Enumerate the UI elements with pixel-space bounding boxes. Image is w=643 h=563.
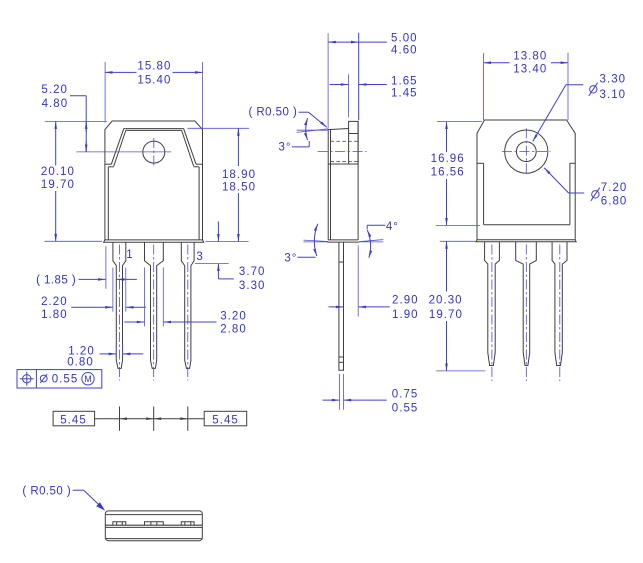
angle 4 deg: [359, 221, 399, 258]
side top block: [349, 121, 359, 164]
svg-text:18.90: 18.90: [222, 169, 256, 181]
dimension 5.45 chain: [53, 407, 247, 431]
side lead taper tick: [339, 261, 344, 263]
front inner left slant inner: [114, 130, 126, 166]
back pad left edge: [483, 163, 485, 224]
bottom view pin 1 stub: [113, 522, 126, 525]
svg-text:( R0.50 ): ( R0.50 ): [249, 107, 298, 119]
svg-text:7.20: 7.20: [601, 182, 628, 194]
dimension 1.65/1.45: [330, 74, 418, 117]
svg-text:3.30: 3.30: [239, 280, 266, 292]
back lead 1 centerline: [491, 245, 493, 382]
bottom view lower inner line: [106, 538, 202, 540]
svg-text:3.30: 3.30: [600, 74, 627, 86]
angle 3 deg bottom: [284, 224, 328, 265]
side hidden hole top: [331, 140, 359, 142]
svg-text:1: 1: [126, 249, 133, 261]
svg-text:3.10: 3.10: [600, 89, 627, 101]
back body outline: [477, 120, 575, 240]
svg-text:15.40: 15.40: [137, 75, 171, 87]
leader dia 7.20/6.80: [544, 168, 627, 208]
front inner top edge upper: [124, 128, 184, 130]
side lead: [339, 242, 344, 370]
back lead 1: [485, 242, 500, 366]
svg-text:5.45: 5.45: [212, 414, 239, 426]
svg-text:4.60: 4.60: [391, 45, 418, 57]
svg-text:6.80: 6.80: [601, 196, 628, 208]
svg-text:4°: 4°: [386, 221, 399, 233]
front lead 1 centerline: [119, 245, 121, 381]
bottom view pin 2 stub: [145, 522, 164, 525]
svg-text:3°: 3°: [284, 253, 297, 265]
svg-text:3.20: 3.20: [220, 310, 247, 322]
side body front face: [357, 121, 359, 239]
front right notch tick upper: [196, 163, 203, 165]
front left notch tick upper: [105, 163, 112, 165]
side tab back face double line: [327, 129, 329, 240]
svg-text:( R0.50 ): ( R0.50 ): [22, 486, 71, 498]
dimension 3.70/3.30: [195, 222, 266, 292]
label (R0.50) side: [249, 107, 327, 128]
back pad notch left: [477, 162, 484, 164]
dimension 20.10/19.70: [41, 122, 107, 242]
bottom view pin 3 stub: [181, 522, 194, 525]
dimension (1.85): [36, 246, 137, 288]
dimension 18.90/18.50: [188, 128, 257, 241]
svg-text:19.70: 19.70: [41, 179, 75, 191]
front left notch tick lower: [108, 166, 113, 168]
dimension 2.90/1.90: [329, 246, 419, 321]
svg-text:20.10: 20.10: [41, 166, 75, 178]
dimension 20.30/19.70: [429, 241, 486, 371]
back lead 3: [552, 242, 567, 366]
leader dia 3.30/3.10: [533, 74, 626, 142]
front inner left slant outer: [111, 129, 123, 164]
back lead 2: [516, 242, 537, 366]
svg-text:( 1.85 ): ( 1.85 ): [36, 275, 76, 287]
svg-text:1.90: 1.90: [392, 309, 419, 321]
bottom view mid line 1: [105, 524, 202, 526]
side tab bottom step line: [328, 163, 358, 165]
side top block chamfer line: [349, 133, 359, 135]
side hole centerline: [318, 151, 367, 153]
front inner right vertical: [198, 167, 200, 240]
front lead 3 centerline: [187, 245, 189, 381]
front inner right slant outer: [184, 129, 196, 164]
svg-text:15.80: 15.80: [137, 61, 171, 73]
svg-text:0.55: 0.55: [52, 374, 79, 386]
svg-text:2.80: 2.80: [220, 324, 247, 336]
side body bottom: [328, 239, 358, 241]
front lead 1: [113, 242, 126, 368]
dimension 1.20/0.80: [67, 345, 143, 369]
svg-text:19.70: 19.70: [429, 309, 463, 321]
back lead 2 centerline: [525, 245, 527, 382]
svg-text:13.80: 13.80: [513, 51, 547, 63]
back lead 3 centerline: [559, 245, 561, 382]
svg-text:1.80: 1.80: [41, 309, 68, 321]
back hole horizontal centerline: [502, 151, 551, 153]
svg-text:5.20: 5.20: [41, 84, 68, 96]
front inner right slant inner: [182, 130, 194, 166]
front hole horizontal centerline: [76, 151, 171, 153]
dimension 16.96/16.56: [431, 122, 482, 226]
back body bottom flange: [476, 240, 576, 242]
front mounting hole: [143, 141, 165, 163]
dimension 3.20/2.80: [124, 268, 246, 336]
svg-text:2.20: 2.20: [41, 296, 68, 308]
svg-text:1.65: 1.65: [391, 75, 418, 87]
svg-text:4.80: 4.80: [42, 98, 69, 110]
side hidden hole bottom: [331, 160, 359, 162]
svg-text:M: M: [84, 374, 92, 384]
back pad bottom edge: [484, 224, 570, 226]
svg-text:0.80: 0.80: [67, 356, 94, 368]
bottom view mid line 2: [105, 526, 202, 528]
svg-text:0.75: 0.75: [392, 389, 419, 401]
svg-text:5.45: 5.45: [60, 414, 87, 426]
front lead 3: [181, 242, 194, 368]
svg-text:3°: 3°: [278, 141, 291, 153]
svg-text:16.96: 16.96: [431, 153, 465, 165]
dimension 5.00/4.60: [328, 32, 417, 128]
dimension 13.80/13.40: [484, 51, 568, 121]
front lead 2 centerline: [153, 245, 155, 381]
front right notch tick lower: [194, 166, 199, 168]
label (R0.50) bottom: [22, 486, 105, 511]
dimension 15.80/15.40: [105, 61, 202, 129]
dimension 5.20/4.80: [41, 84, 86, 152]
side lead tip ticks: [339, 356, 344, 358]
back hole vertical centerline: [525, 128, 527, 173]
dimension 2.20/1.80: [41, 268, 146, 321]
svg-text:5.00: 5.00: [391, 32, 418, 44]
front inner left vertical: [107, 167, 109, 240]
svg-text:3.70: 3.70: [239, 266, 266, 278]
back pad right edge: [569, 163, 571, 224]
svg-text:13.40: 13.40: [513, 64, 547, 76]
back hole outer circle: [505, 130, 548, 173]
front body bottom flange: [104, 240, 204, 242]
bottom view top inner line: [106, 514, 202, 516]
bottom view body: [105, 511, 202, 541]
svg-text:0.55: 0.55: [392, 402, 419, 414]
front inner top edge lower: [126, 129, 182, 131]
back hole inner circle: [516, 142, 536, 162]
svg-text:20.30: 20.30: [429, 295, 463, 307]
svg-text:1.45: 1.45: [391, 88, 418, 100]
side tab top edge: [328, 129, 348, 130]
svg-text:16.56: 16.56: [431, 166, 465, 178]
dimension 0.75/0.55: [323, 374, 419, 415]
front hole vertical centerline: [153, 138, 155, 167]
side body bottom flange: [327, 241, 359, 243]
svg-text:2.90: 2.90: [392, 295, 419, 307]
svg-text:18.50: 18.50: [222, 182, 256, 194]
back pad notch right: [570, 162, 575, 164]
angle 3 deg top: [278, 118, 328, 153]
feature control frame: [17, 370, 102, 388]
front lead 2: [145, 242, 164, 368]
svg-text:3: 3: [196, 251, 203, 263]
front body outline: [105, 121, 203, 240]
